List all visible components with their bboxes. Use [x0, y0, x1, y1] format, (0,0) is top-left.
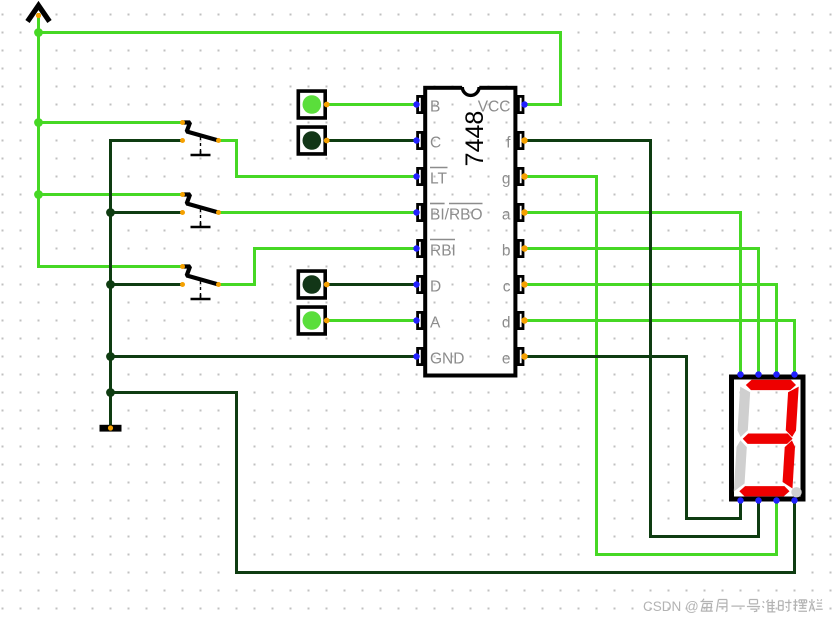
- svg-text:C: C: [430, 135, 441, 152]
- svg-text:7448: 7448: [461, 111, 489, 167]
- svg-text:c: c: [503, 279, 511, 296]
- svg-text:RBI: RBI: [430, 243, 456, 260]
- svg-text:d: d: [502, 315, 511, 332]
- svg-text:f: f: [506, 135, 511, 152]
- svg-text:A: A: [430, 315, 441, 332]
- svg-text:g: g: [502, 171, 511, 188]
- svg-text:GND: GND: [430, 351, 464, 368]
- svg-text:B: B: [430, 99, 440, 116]
- svg-text:BI/RBO: BI/RBO: [430, 207, 483, 224]
- svg-text:CSDN @: CSDN @: [643, 599, 699, 614]
- svg-text:a: a: [502, 207, 511, 224]
- svg-text:LT: LT: [430, 171, 447, 188]
- svg-text:D: D: [430, 279, 441, 296]
- svg-text:e: e: [502, 351, 511, 368]
- svg-text:b: b: [502, 243, 511, 260]
